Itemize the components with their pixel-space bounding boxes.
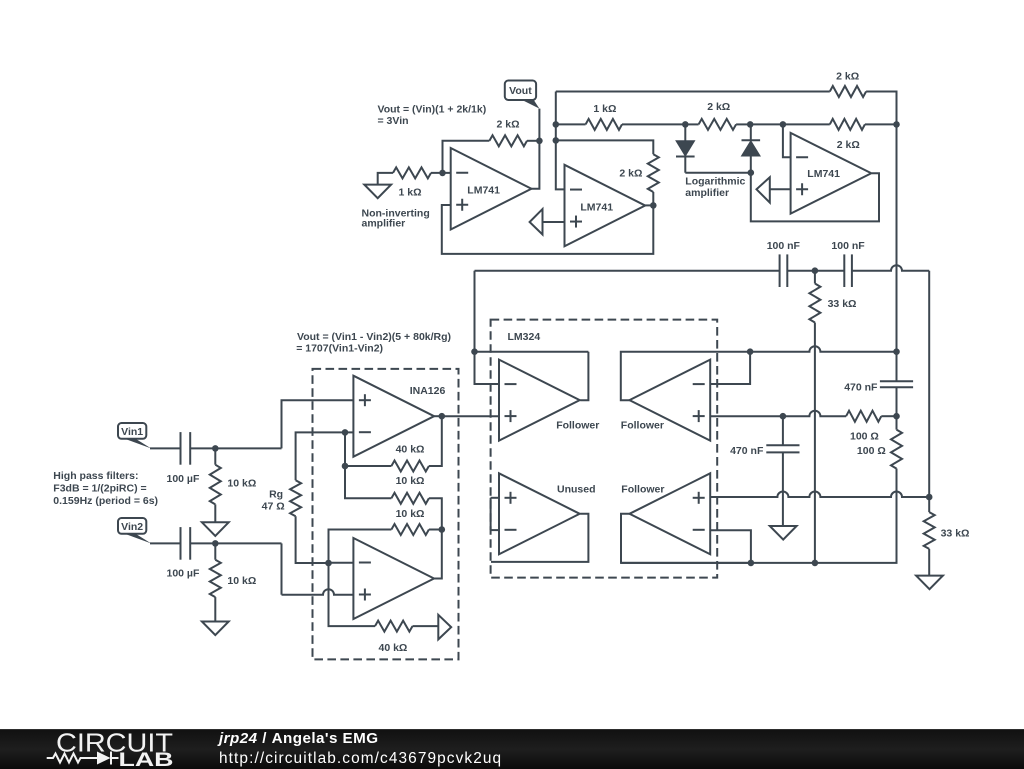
resistor 1 kOhm (input) <box>393 167 431 178</box>
svg-text:100 Ω: 100 Ω <box>850 430 879 442</box>
svg-text:2 kΩ: 2 kΩ <box>837 139 860 151</box>
node diode D1 top <box>682 121 689 128</box>
flag Vin1 <box>122 438 151 449</box>
op-amp U4d (follower) <box>630 473 711 554</box>
wire U4a feedback loop <box>475 351 589 353</box>
wire filter1 to INA <box>215 447 281 449</box>
wire Vout node vertical rail <box>556 92 565 190</box>
svg-text:10 kΩ: 10 kΩ <box>396 475 425 487</box>
svg-text:1 kΩ: 1 kΩ <box>399 187 422 199</box>
op-amp U4c (unused) <box>499 473 580 554</box>
wire A1 minus path <box>296 432 354 480</box>
wire 2k second to rail node <box>865 123 897 125</box>
footer title text <box>219 731 379 746</box>
node U4d plus to 33k <box>926 494 933 501</box>
wire U1 non-inverting input loop <box>442 205 654 254</box>
svg-text:LM741: LM741 <box>580 202 613 214</box>
node A2 minus junction <box>325 560 332 567</box>
op-amp A1 (INA126 top) <box>353 376 434 457</box>
wire cap rail right segment with hop <box>852 265 929 271</box>
node U4a loop junction <box>471 348 478 355</box>
node U4b minus junction <box>747 348 754 355</box>
svg-text:INA126: INA126 <box>410 385 446 397</box>
svg-text:0.159Hz (period = 6s): 0.159Hz (period = 6s) <box>53 495 158 507</box>
capacitor 100 uF (1) <box>180 432 182 465</box>
wire R2k to output node <box>527 140 539 142</box>
svg-text:2 kΩ: 2 kΩ <box>619 168 642 180</box>
wire cap rail left segment <box>475 270 780 272</box>
wire 2k top to corner <box>866 92 896 125</box>
svg-text:Vout: Vout <box>509 85 532 97</box>
flag U2 non-inverting input (left arrow) <box>530 209 543 234</box>
svg-text:= 1707(Vin1-Vin2): = 1707(Vin1-Vin2) <box>296 342 383 354</box>
resistor 100 Ohm (vertical) <box>891 430 902 469</box>
svg-text:Rg: Rg <box>269 489 283 501</box>
svg-text:LM741: LM741 <box>807 168 840 180</box>
node rail to feedback wire <box>553 137 560 144</box>
resistor 40 kOhm (2) <box>375 621 413 632</box>
resistor 10 kOhm (1) <box>391 493 429 504</box>
flag A2 output (right arrow) <box>438 615 451 640</box>
wire 2k to D2 node <box>736 123 750 125</box>
wire diode node to 2k <box>685 123 698 125</box>
svg-text:2 kΩ: 2 kΩ <box>497 118 520 130</box>
wire U3 notch node to 2k second <box>783 123 830 125</box>
wire 100R v leads <box>896 416 898 429</box>
capacitor 100 nF (right) <box>843 254 845 287</box>
svg-text:amplifier: amplifier <box>685 187 729 199</box>
wire r filter1 leads <box>214 448 216 464</box>
wire 2k to U2 output node <box>652 192 654 205</box>
wire rail left corner down to LM324 <box>474 271 476 352</box>
wire D1 bottom to D2 bottom <box>685 172 751 174</box>
wire 10k2 right lead <box>429 529 442 531</box>
svg-text:= 3Vin: = 3Vin <box>378 115 409 127</box>
node filter2 <box>212 540 219 547</box>
wire Vin2 to cap <box>150 542 181 544</box>
wire r filter2 leads <box>214 543 216 559</box>
wire U3 output loop <box>751 173 879 222</box>
resistor 2 kOhm (second, to rail) <box>830 119 865 130</box>
svg-text:Follower: Follower <box>621 420 664 432</box>
dashed box INA126 <box>313 369 459 660</box>
svg-text:Vout = (Vin)(1 + 2k/1k): Vout = (Vin)(1 + 2k/1k) <box>378 104 487 116</box>
svg-text:470 nF: 470 nF <box>730 445 764 457</box>
node 10k2 junction <box>439 526 446 533</box>
resistor 33 kOhm (top) <box>809 284 820 323</box>
svg-text:100 Ω: 100 Ω <box>857 445 886 457</box>
svg-text:33 kΩ: 33 kΩ <box>828 298 857 310</box>
CircuitLab logo <box>0 729 210 768</box>
svg-text:2 kΩ: 2 kΩ <box>836 71 859 83</box>
op-amp A2 (INA126 bottom) <box>353 538 434 619</box>
node U4b plus to cap470b <box>780 413 787 420</box>
wire U4b plus <box>710 415 783 417</box>
wire Rg bottom to A2 minus node <box>296 516 329 563</box>
diode D2 (up) <box>750 124 752 140</box>
wire U4d minus <box>710 530 751 563</box>
wire A1 output <box>434 415 442 417</box>
node U4d minus junction <box>748 560 755 567</box>
capacitor 470 nF (left, vertical) <box>766 444 799 446</box>
node 33k top <box>812 267 819 274</box>
node bottom rail 33k <box>812 560 819 567</box>
node U3 minus notch <box>780 121 787 128</box>
wire R 1k to op-amp inverting input <box>431 172 451 174</box>
node junction inverting input U1 <box>439 170 446 177</box>
wire 33k br leads <box>928 497 930 512</box>
resistor 10 kOhm (filter1) <box>210 465 221 505</box>
svg-text:40 kΩ: 40 kΩ <box>396 444 425 456</box>
wire A1 plus path <box>282 400 354 448</box>
resistor 40 kOhm (A1 feedback) <box>391 461 429 472</box>
node A1 output junction <box>439 413 446 420</box>
wire cap470 leads <box>896 352 898 382</box>
wire cap470b leads <box>782 416 784 445</box>
wire 100R to node <box>881 415 896 417</box>
node D bottom junction <box>748 169 755 176</box>
resistor 2 kOhm (top, to rail) <box>830 86 866 97</box>
wire 10k1 to 10k2 <box>429 498 442 529</box>
node rail to 1k <box>553 121 560 128</box>
node rail to cap470 top <box>893 348 900 355</box>
ground 33k bottom <box>916 576 943 590</box>
svg-text:Unused: Unused <box>557 484 596 496</box>
footer bar <box>0 729 1024 769</box>
node 40k junction <box>342 463 349 470</box>
wire right corner down <box>928 271 930 497</box>
wire U4d output loop <box>621 514 751 563</box>
op-amp U4b (follower) <box>630 360 711 441</box>
op-amp U4a (follower) <box>499 360 580 441</box>
node feedback/output junction U1 <box>536 138 543 145</box>
wire A2 40k2 path <box>329 563 376 626</box>
ground filter1 <box>202 522 229 536</box>
flag Vin2 <box>122 533 151 544</box>
svg-text:amplifier: amplifier <box>362 218 406 230</box>
diode D1 (down) <box>684 124 686 140</box>
svg-text:40 kΩ: 40 kΩ <box>379 642 408 654</box>
op-amp U3 LM741 <box>791 133 872 214</box>
svg-text:Follower: Follower <box>556 420 599 432</box>
svg-text:100 nF: 100 nF <box>831 240 865 252</box>
svg-text:33 kΩ: 33 kΩ <box>941 527 970 539</box>
ground cap470b <box>770 526 797 540</box>
node right rail top <box>893 121 900 128</box>
resistor 33 kOhm (bottom right) <box>924 512 935 549</box>
wire U4c output loop <box>491 514 588 562</box>
node D2 top <box>747 121 754 128</box>
svg-text:Vout = (Vin1 - Vin2)(5 + 80k/R: Vout = (Vin1 - Vin2)(5 + 80k/Rg) <box>297 331 451 343</box>
svg-text:10 kΩ: 10 kΩ <box>227 575 256 587</box>
wire U4b plus to 100R with hop <box>783 411 846 417</box>
svg-text:470 nF: 470 nF <box>844 382 878 394</box>
capacitor 100 uF (2) <box>180 527 182 560</box>
op-amp U2 LM741 <box>565 165 646 247</box>
svg-text:100 nF: 100 nF <box>767 240 801 252</box>
svg-text:1 kΩ: 1 kΩ <box>593 103 616 115</box>
resistor 2 kOhm feedback U1 <box>489 135 527 146</box>
node 100R junction <box>893 413 900 420</box>
wire U4b rail to 470nF node with hop <box>750 346 896 352</box>
wire U4b minus <box>710 352 750 384</box>
svg-text:High pass filters:: High pass filters: <box>53 470 138 482</box>
resistor 10 kOhm (2) <box>391 524 429 535</box>
node A1 minus junction <box>342 429 349 436</box>
wire cap1 to node <box>190 447 215 449</box>
svg-text:LM741: LM741 <box>467 185 500 197</box>
svg-text:F3dB = 1/(2piRC) =: F3dB = 1/(2piRC) = <box>53 482 146 494</box>
svg-text:Follower: Follower <box>621 484 664 496</box>
svg-text:100 µF: 100 µF <box>167 568 200 580</box>
wire D2 node to U3 minus notch <box>750 123 783 125</box>
wire Vin1 to cap <box>150 447 181 449</box>
dashed box LM324 <box>491 320 718 578</box>
wire U2 output <box>645 204 653 206</box>
wire INA out to U4a plus <box>442 415 499 417</box>
flag Vout <box>520 99 539 109</box>
svg-text:2 kΩ: 2 kΩ <box>707 101 730 113</box>
resistor 2 kOhm feedback U2 (vertical) <box>648 154 659 192</box>
node filter1 <box>212 445 219 452</box>
svg-text:Vin2: Vin2 <box>121 521 143 533</box>
wire filter2 to INA <box>215 542 281 544</box>
wire 40k2 to flag <box>413 625 439 627</box>
wire ground to R 1k <box>378 173 393 185</box>
wire top rail to right 2k <box>556 91 830 93</box>
svg-text:100 µF: 100 µF <box>167 473 200 485</box>
node U2 output junction <box>650 202 657 209</box>
capacitor 470 nF (right, vertical) <box>880 380 913 382</box>
wire bottom node rail <box>621 469 897 563</box>
resistor 1 kOhm (stage2 input) <box>586 119 622 130</box>
resistor Rg 47 Ohm <box>290 480 301 516</box>
wire right rail down to cap rail <box>896 124 898 351</box>
svg-text:47 Ω: 47 Ω <box>262 500 285 512</box>
resistor 100 Ohm (horizontal) <box>846 411 881 422</box>
ground (1 kOhm input) <box>364 185 391 199</box>
wire A2 minus stub <box>329 562 354 564</box>
resistor 10 kOhm (filter2) <box>210 560 221 597</box>
capacitor 100 nF (left) <box>779 254 781 287</box>
wire feedback top stage2 <box>556 140 654 154</box>
resistor 2 kOhm (log amp) <box>699 119 737 130</box>
wire minus node down to 10k1 <box>345 432 391 498</box>
wire 1k to diode node <box>622 123 685 125</box>
wire 33k leads <box>814 271 816 284</box>
ground filter2 <box>202 622 229 636</box>
op-amp U1 LM741 <box>451 148 532 230</box>
wire U1 output to node <box>531 109 539 189</box>
wire U4c input stubs <box>491 497 499 499</box>
wire 40k feedback path <box>429 416 442 466</box>
wire notch to U3 inverting input <box>783 124 791 157</box>
flag U3 non-inverting input (left arrow) <box>757 177 770 202</box>
wire A2 output <box>434 530 442 579</box>
wire rail to 1k squiggle <box>556 123 586 125</box>
wire U4b output loop <box>621 352 750 401</box>
wire cap2 to node <box>190 542 215 544</box>
svg-text:LAB: LAB <box>119 749 174 768</box>
wire feedback up from inverting input <box>443 141 490 173</box>
wire cap rail mid segment <box>787 270 844 272</box>
wire U4d plus with hops <box>710 492 929 497</box>
svg-text:Vin1: Vin1 <box>121 426 143 438</box>
svg-text:Logarithmic: Logarithmic <box>685 175 745 187</box>
wire A2 plus path with hop <box>281 543 283 594</box>
wire 10k2 to A2 minus <box>329 530 392 564</box>
wire 40k to minus node <box>345 465 391 467</box>
svg-text:10 kΩ: 10 kΩ <box>396 508 425 520</box>
svg-text:10 kΩ: 10 kΩ <box>227 478 256 490</box>
svg-text:LM324: LM324 <box>508 331 541 343</box>
